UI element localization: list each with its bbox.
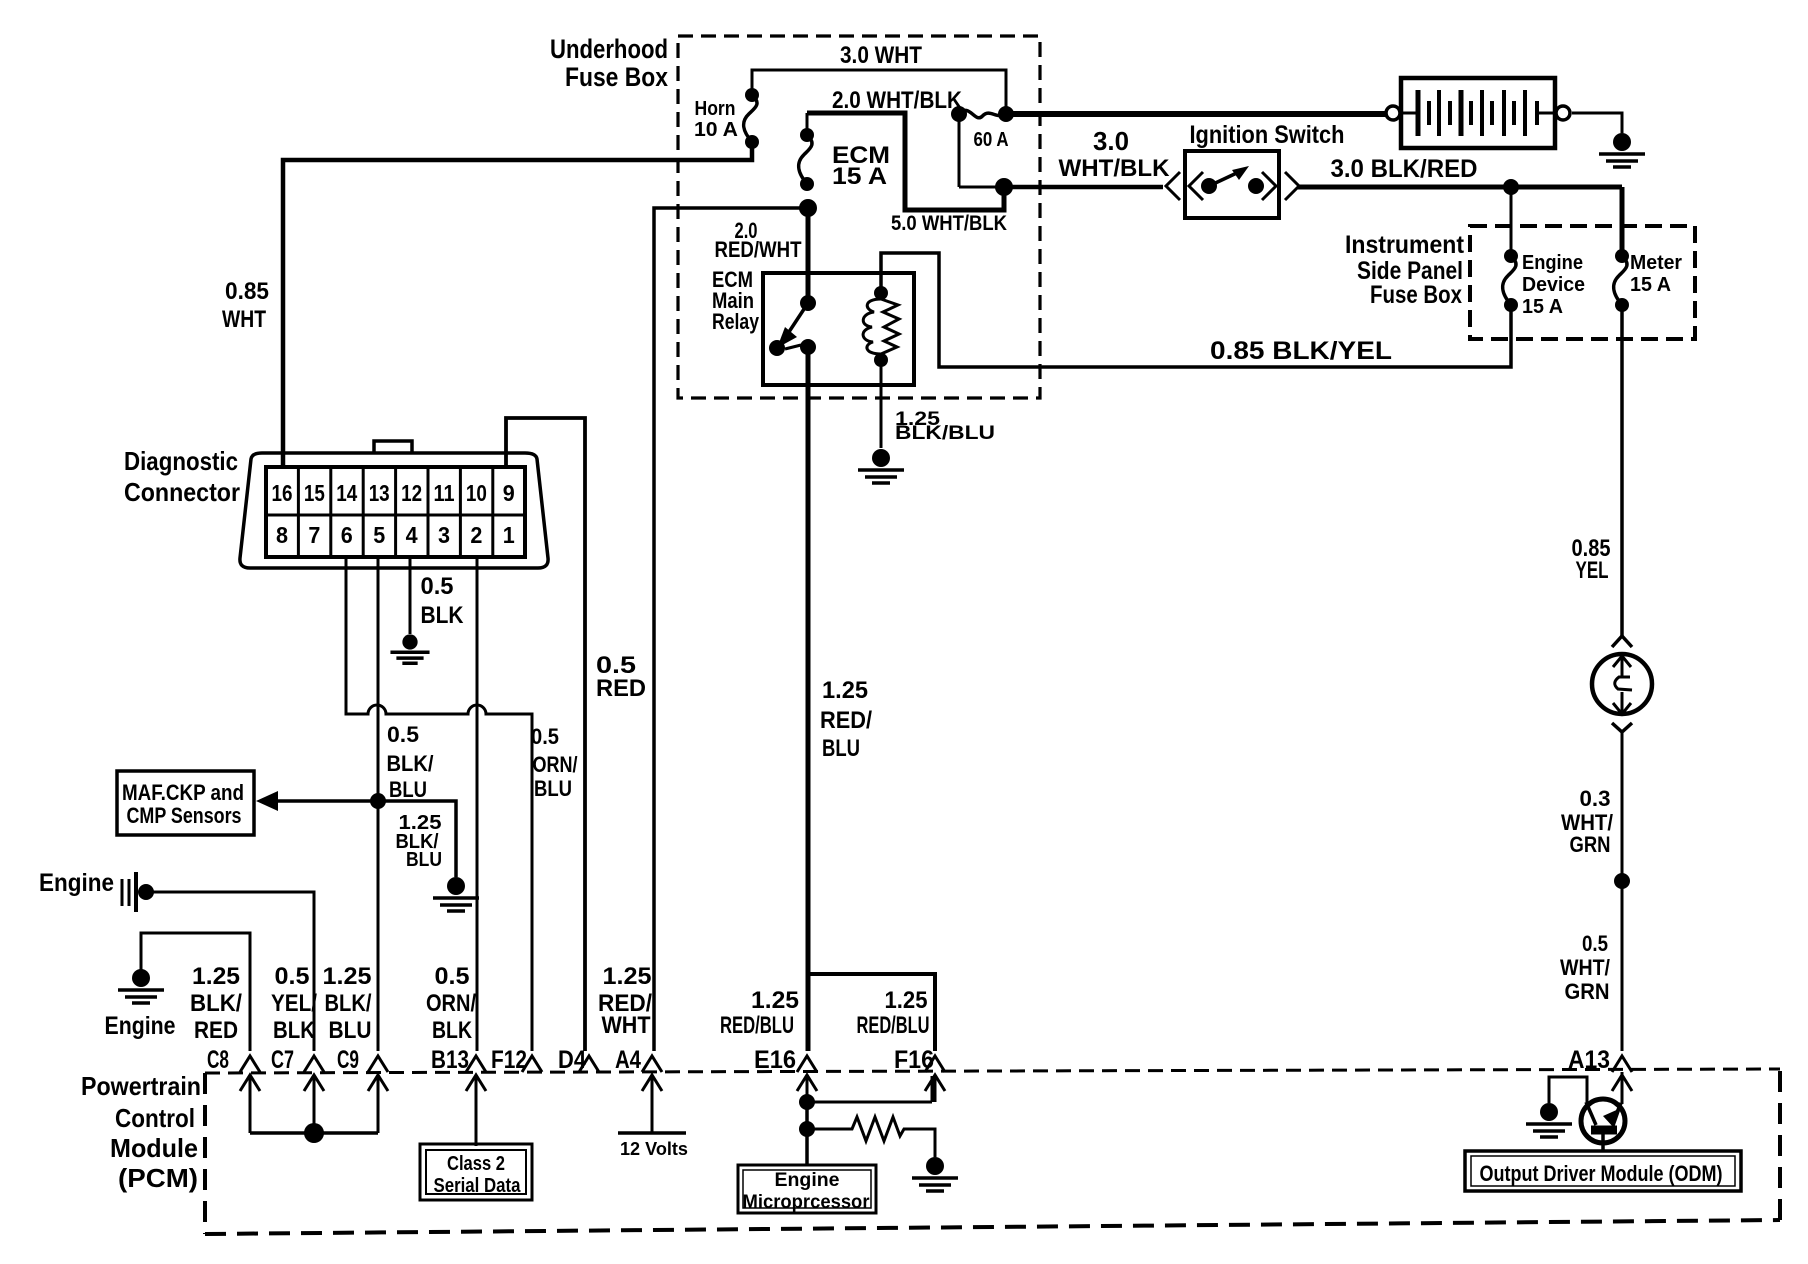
wire 3.0 BLK/RED [1297,155,1622,187]
svg-text:1: 1 [503,522,515,548]
wire pin4 0.5 BLK to ground [390,557,464,663]
svg-text:RED: RED [194,1017,238,1044]
svg-text:BLK/: BLK/ [190,990,242,1017]
svg-text:0.5: 0.5 [421,573,454,600]
instrument side panel fuse box label [1345,231,1465,309]
svg-text:3.0: 3.0 [1093,126,1129,156]
svg-text:0.5: 0.5 [531,724,559,749]
svg-text:3.0 WHT: 3.0 WHT [840,42,922,69]
svg-text:10: 10 [466,480,487,506]
svg-text:BLK: BLK [273,1017,316,1044]
svg-text:BLK: BLK [421,602,465,629]
pin A13 [1568,1046,1632,1098]
svg-text:5: 5 [373,522,385,548]
ignition switch [1166,121,1345,218]
wire pin5 to C9 [377,557,380,1051]
svg-text:YEL/: YEL/ [271,990,317,1017]
svg-text:60 A: 60 A [974,129,1009,151]
lamp connector top [1612,636,1632,647]
svg-text:Powertrain: Powertrain [81,1071,201,1101]
svg-text:WHT: WHT [602,1012,651,1039]
svg-text:Instrument: Instrument [1345,231,1465,259]
svg-text:BLU: BLU [329,1017,372,1044]
svg-text:1.25: 1.25 [822,677,868,704]
svg-text:Diagnostic: Diagnostic [124,446,238,476]
pin C8 [207,1046,260,1133]
wire 1.25 RED/BLU E16 (relay to PCM) [806,347,811,1051]
svg-text:WHT/: WHT/ [1560,955,1610,980]
wire pin9 to D4 0.5 RED [506,418,646,1051]
label 1.25 BLK/RED (C8) [190,963,242,1044]
wire 0.85 WHT (horn to diagnostic pin 16) [222,142,752,467]
pin C9 [337,1046,388,1133]
svg-text:BLK/: BLK/ [325,990,372,1017]
svg-text:Meter: Meter [1630,252,1682,274]
svg-text:15 A: 15 A [1522,296,1563,318]
svg-text:BLK/BLU: BLK/BLU [895,423,995,444]
svg-text:9: 9 [503,480,515,506]
underhood fuse box dashed border [678,36,1040,398]
label 1.25 RED/BLU (F16) [857,987,930,1039]
label 0.5 BLK/BLU [387,722,434,802]
svg-text:Relay: Relay [712,309,760,334]
wire 2.0 RED/WHT [715,208,809,303]
svg-text:16: 16 [272,480,293,506]
svg-text:Microprcessor: Microprcessor [743,1192,871,1213]
svg-text:3.0 BLK/RED: 3.0 BLK/RED [1331,155,1478,183]
svg-text:Control: Control [115,1103,195,1133]
svg-text:F12: F12 [491,1046,527,1074]
svg-text:WHT: WHT [222,306,266,333]
wire pin6 to F12 0.5 ORN/BLU [346,557,578,1051]
svg-text:GRN: GRN [1570,832,1611,857]
svg-text:WHT/BLK: WHT/BLK [1059,155,1171,182]
svg-text:ORN/: ORN/ [426,990,476,1017]
svg-text:C8: C8 [207,1046,229,1074]
svg-text:Fuse Box: Fuse Box [1370,281,1462,309]
svg-text:Connector: Connector [124,477,240,507]
fuse Horn 10 A [694,88,759,149]
svg-text:Underhood: Underhood [550,34,668,64]
lamp [1592,654,1652,714]
pin F16 [894,1046,945,1102]
svg-text:RED/BLU: RED/BLU [720,1012,794,1039]
pin C7 [271,1046,324,1133]
relay coil [863,286,899,367]
svg-text:2: 2 [470,522,482,548]
svg-text:RED: RED [596,675,646,702]
diagnostic connector pin grid [266,467,525,557]
svg-text:MAF.CKP and: MAF.CKP and [122,780,244,805]
wire 3.0 WHT [752,42,1006,107]
pin E16 [754,1046,817,1102]
battery ground [1572,113,1645,167]
wire pin2 to B13 [476,557,479,1051]
svg-text:0.5: 0.5 [1582,931,1608,956]
wire battery feed [1012,111,1386,117]
svg-text:Engine: Engine [1522,252,1583,274]
pin B13 [431,1046,486,1146]
wire MAF sensors arrow [256,791,378,811]
fuse ECM 15 A [799,113,890,191]
lamp connector bottom [1612,723,1632,732]
svg-text:GRN: GRN [1565,979,1610,1004]
pin F12 [491,1046,542,1074]
PCM dashed border [205,1069,1780,1234]
wire E16-F16 link [799,1076,932,1110]
svg-text:BLU: BLU [822,735,860,762]
wire meter fuse feed [1620,187,1625,250]
wire transistor base to ground [1526,1077,1587,1137]
12 Volts supply [618,1133,688,1159]
wire 3.0 WHT/BLK to ignition switch [1004,126,1170,187]
svg-text:3: 3 [438,522,450,548]
underhood fuse box label [550,34,668,92]
Engine Microprocessor box [738,1165,876,1213]
svg-text:A13: A13 [1568,1046,1610,1074]
svg-text:0.85 BLK/YEL: 0.85 BLK/YEL [1210,337,1392,365]
relay ECM Main Relay label [712,267,760,334]
svg-text:ORN/: ORN/ [533,752,578,777]
svg-text:RED/WHT: RED/WHT [715,237,802,262]
svg-text:RED/: RED/ [820,707,872,734]
label 0.5 ORN/BLK (B13) [426,963,476,1044]
svg-text:Serial Data: Serial Data [434,1175,522,1197]
MAF.CKP and CMP Sensors box [117,771,254,835]
svg-text:10 A: 10 A [694,119,738,141]
powertrain control module label [81,1071,201,1193]
svg-text:Engine: Engine [39,869,114,897]
wire C8-C7-C9 ground bus [250,1123,378,1143]
svg-text:1.25: 1.25 [192,963,240,990]
svg-text:0.85: 0.85 [225,278,269,305]
svg-text:(PCM): (PCM) [118,1163,198,1193]
Class 2 Serial Data box [420,1144,532,1200]
svg-text:Horn: Horn [695,98,736,120]
wire 1.25 BLK/BLU to ground [378,801,479,911]
instrument side panel fuse box dashed border [1470,226,1695,339]
wire engine device fuse feed [1510,187,1513,250]
diagnostic connector label [124,446,240,507]
node splice on lamp wire [1614,873,1630,889]
pin D4 [558,1046,599,1074]
node junction engine device branch [1503,179,1519,195]
svg-text:15 A: 15 A [832,163,887,190]
svg-text:Class 2: Class 2 [447,1153,505,1175]
node junction pin5 branch [370,793,386,809]
wire 1.25 BLK/BLU relay coil ground [858,360,995,483]
svg-text:8: 8 [276,522,288,548]
pin A4 [615,1046,662,1133]
fuse Engine Device 15 A [1503,249,1585,318]
svg-text:Output Driver Module (ODM): Output Driver Module (ODM) [1480,1161,1723,1186]
svg-text:0.5: 0.5 [275,963,310,990]
label 1.25 RED/BLU (E16) [720,987,799,1039]
relay ECM Main Relay box [763,273,914,385]
wire E16 to engine microprocessor [805,1102,809,1165]
wire A4 12 volt feed 1.25 RED/WHT [654,208,808,1051]
wire 2.0 WHT/BLK [807,87,1004,210]
svg-text:6: 6 [341,522,353,548]
svg-text:BLU: BLU [389,777,427,802]
svg-text:12: 12 [401,480,422,506]
svg-text:CMP Sensors: CMP Sensors [127,803,242,828]
svg-text:BLK: BLK [432,1017,473,1044]
svg-text:1.25: 1.25 [323,963,372,990]
engine ground symbol [105,933,251,1051]
diagnostic connector body [240,441,548,568]
svg-text:13: 13 [369,480,390,506]
svg-text:Ignition Switch: Ignition Switch [1190,121,1345,149]
svg-text:Engine: Engine [105,1012,176,1040]
svg-text:1.25: 1.25 [885,987,928,1014]
svg-text:4: 4 [406,522,418,548]
svg-text:C9: C9 [337,1046,359,1074]
label 1.25 BLK/BLU (C9) [323,963,372,1044]
svg-text:F16: F16 [894,1046,934,1074]
svg-text:11: 11 [434,480,455,506]
Output Driver Module box [1465,1151,1741,1191]
svg-text:E16: E16 [754,1046,796,1074]
svg-text:C7: C7 [271,1046,294,1074]
svg-text:0.5: 0.5 [387,722,419,747]
wire 0.85 BLK/YEL (relay coil to engine device fuse) [881,253,1511,367]
svg-text:A4: A4 [615,1046,641,1074]
svg-text:RED/BLU: RED/BLU [857,1012,930,1039]
svg-text:BLU: BLU [534,776,572,801]
transistor in ODM [1581,1072,1625,1151]
label 1.25 RED/BLU on E16 wire [820,677,872,762]
fuse Meter 15 A [1614,249,1683,312]
svg-text:7: 7 [308,522,320,548]
node junction ECM fuse output [799,199,817,217]
svg-text:5.0 WHT/BLK: 5.0 WHT/BLK [891,212,1007,235]
wire A13 0.85 YEL / WHT GRN [1572,310,1623,636]
battery [1386,78,1570,148]
node junction 3.0 WHT/BLK [995,178,1013,196]
relay switch contacts [769,295,816,356]
fuse 60 A [951,106,1014,187]
engine connection symbol [39,869,314,1051]
svg-text:15 A: 15 A [1630,274,1671,296]
svg-text:14: 14 [336,480,357,506]
svg-text:BLU: BLU [406,849,442,871]
resistor to ground inside PCM [799,1117,958,1191]
svg-text:B13: B13 [431,1046,469,1074]
svg-text:D4: D4 [558,1046,586,1074]
label 0.5 WHT/GRN [1560,931,1610,1004]
svg-text:15: 15 [304,480,325,506]
svg-text:Device: Device [1522,274,1585,296]
svg-text:Fuse Box: Fuse Box [565,62,668,92]
svg-text:1.25: 1.25 [603,963,652,990]
wire 0.3 WHT/GRN [1561,732,1622,1051]
label 1.25 RED/WHT (A4) [598,963,652,1039]
svg-text:Engine: Engine [775,1170,840,1191]
svg-text:0.5: 0.5 [435,963,470,990]
svg-text:1.25: 1.25 [751,987,799,1014]
label 0.5 YEL/BLK (C7) [271,963,317,1044]
wire 1.25 RED/BLU F16 branch [808,974,935,1051]
svg-text:0.3: 0.3 [1580,786,1611,811]
svg-text:12 Volts: 12 Volts [620,1139,688,1159]
svg-text:2.0 WHT/BLK: 2.0 WHT/BLK [832,87,963,114]
svg-text:BLK/: BLK/ [387,751,434,776]
svg-text:YEL: YEL [1576,557,1609,584]
svg-text:Module: Module [110,1133,198,1163]
